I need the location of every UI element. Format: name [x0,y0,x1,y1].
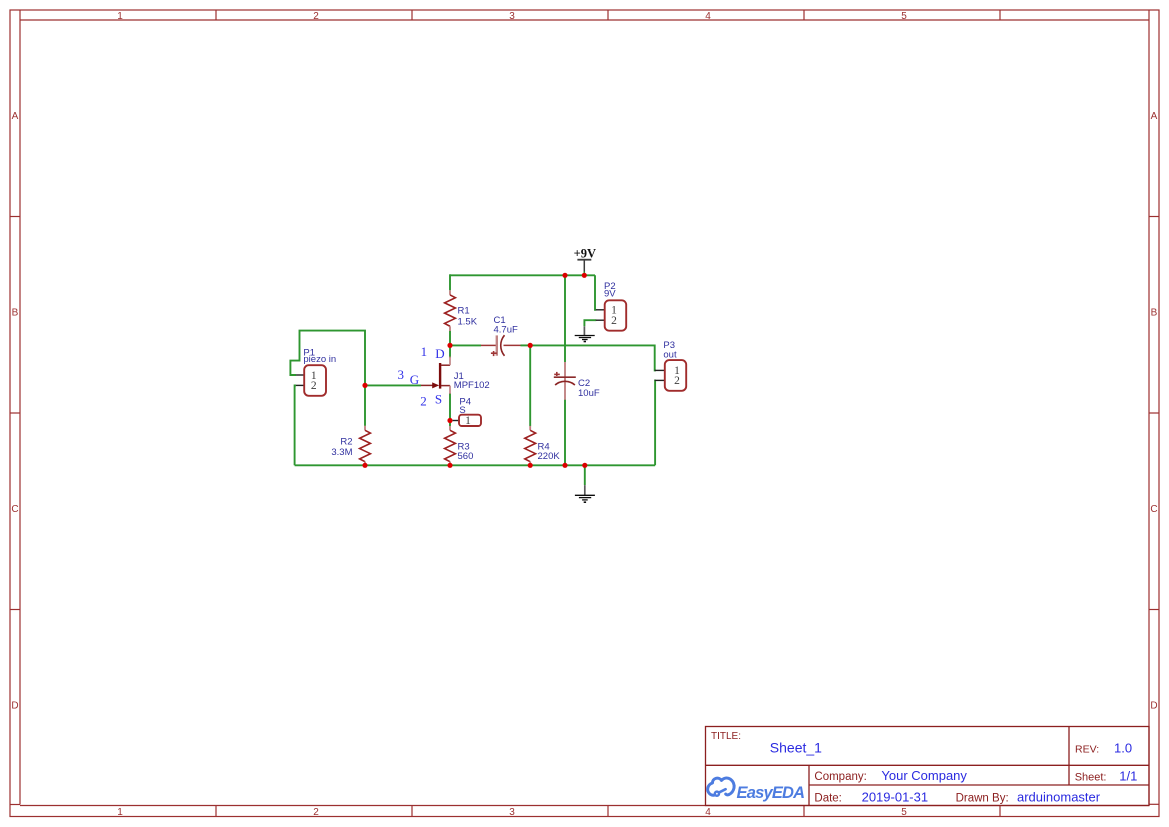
wire: P3 pin2 down to rail [654,380,657,465]
svg-text:2: 2 [611,315,617,327]
frame row letters right [1150,111,1157,712]
wire: source node to R3 [449,421,451,427]
svg-text:1.5K: 1.5K [458,317,478,328]
wire: gate node down to R2 [364,385,366,426]
resistor R3 [445,426,456,465]
svg-text:D: D [1150,701,1157,712]
svg-text:+9V: +9V [574,247,596,261]
junction node: +9V stem [582,273,587,278]
resistor R2 [360,426,371,466]
connector P2 box [605,300,627,330]
svg-text:3: 3 [509,11,515,22]
svg-text:A: A [12,111,19,122]
J1 source pin [449,386,451,394]
svg-text:S: S [459,405,465,416]
svg-text:R2: R2 [340,437,352,448]
wire: output node down to R4 [529,345,531,426]
+9V power flag [577,259,591,261]
connector P1 box [304,365,326,396]
junction node: R2 bottom [362,463,367,468]
wire: gate node to JFET gate [365,384,421,386]
wire: bottom ground rail [295,464,655,466]
wire: top rail down to P2 pin1 [595,275,596,310]
wire: drain node to C1 left [450,344,481,346]
svg-text:Your Company: Your Company [881,768,967,783]
EasyEDA logo cloud [708,778,735,796]
wire: R1 bottom to drain node [449,331,451,346]
svg-text:Sheet_1: Sheet_1 [770,739,822,755]
J1 gate lead [421,384,436,386]
JFET J1 channel bar [439,363,441,389]
connector P4 box [459,415,481,426]
svg-text:4: 4 [705,11,711,22]
svg-text:1/1: 1/1 [1119,769,1137,784]
wire: +9V rail down to C2 top [564,275,566,362]
junction node: C1 output [528,343,533,348]
svg-text:arduinomaster: arduinomaster [1017,789,1101,804]
svg-text:out: out [663,350,677,361]
svg-text:R1: R1 [458,306,470,317]
wire: P1 pin2 down to ground rail [295,385,296,465]
svg-text:2: 2 [674,375,680,387]
svg-text:1: 1 [117,807,123,818]
svg-text:MPF102: MPF102 [454,380,490,391]
wire: P1 pin1 route up and over to gate node [290,331,365,386]
svg-text:220K: 220K [538,451,561,462]
frame row letters left [11,111,18,712]
svg-text:1: 1 [117,11,123,22]
junction node: C2 bottom [562,463,567,468]
svg-text:TITLE:: TITLE: [711,731,741,742]
connector P3 pins [655,369,665,371]
junction node: R3 bottom [447,463,452,468]
svg-text:5: 5 [901,807,907,818]
junction node: drain [447,343,452,348]
svg-text:D: D [11,701,18,712]
junction node: R4 bottom [528,463,533,468]
frame column numbers bottom [117,807,907,818]
wire: +9V top rail [450,274,595,276]
J1 drain pin [449,357,451,366]
svg-text:1: 1 [421,344,428,359]
junction node: source / P4 [447,418,452,423]
svg-text:2: 2 [313,11,319,22]
svg-text:5: 5 [901,11,907,22]
svg-text:2019-01-31: 2019-01-31 [862,789,929,804]
svg-text:EasyEDA: EasyEDA [737,784,805,802]
junction node: gate [362,383,367,388]
wire: R1 top [449,274,451,290]
connector P4 pin [453,420,460,422]
svg-text:G: G [410,372,419,387]
svg-text:B: B [1151,308,1158,319]
svg-text:B: B [12,308,19,319]
svg-text:4.7uF: 4.7uF [494,325,518,336]
svg-text:C: C [1150,504,1157,515]
ground symbol at P2 [575,326,595,341]
title block lines [706,727,1150,806]
resistor R4 [525,426,536,465]
svg-text:3: 3 [509,807,515,818]
svg-text:Sheet:: Sheet: [1075,772,1107,784]
J1 drain lead [441,364,450,366]
junction node: C2 top rail [562,273,567,278]
svg-text:D: D [435,346,444,361]
svg-text:2: 2 [311,380,317,392]
svg-text:1: 1 [465,415,471,427]
svg-text:3.3M: 3.3M [331,447,352,458]
svg-text:3: 3 [398,367,405,382]
svg-text:10uF: 10uF [578,388,600,399]
svg-text:piezo in: piezo in [303,354,336,365]
wire: C1 right to output node [521,344,531,346]
wire: output node to P3 pin1 [530,345,656,370]
connector P2 pins [596,309,605,311]
wire: drain node to JFET drain [449,345,451,357]
ground symbol at bottom rail [575,485,595,502]
svg-text:A: A [1151,111,1158,122]
wire: P2 pin2 to ground stem [584,320,596,326]
svg-text:1.0: 1.0 [1114,740,1132,755]
connector P1 pins [296,374,304,376]
frame column numbers top [117,11,907,22]
capacitor C1 [481,335,521,356]
wire: C2 bottom to rail [564,400,566,466]
svg-text:2: 2 [420,393,427,408]
resistor R1 [445,290,456,331]
svg-text:Drawn By:: Drawn By: [956,792,1009,804]
J1 source lead [441,385,450,387]
svg-text:Date:: Date: [814,792,842,804]
svg-text:4: 4 [705,807,711,818]
svg-text:2: 2 [313,807,319,818]
capacitor C2 [554,362,576,400]
wire: rail to bottom ground [584,465,586,485]
wire: JFET source to source node [449,393,451,421]
connector P3 box [665,360,686,391]
svg-text:560: 560 [458,451,474,462]
junction node: ground stem [582,463,587,468]
svg-text:Company:: Company: [814,771,866,783]
svg-text:C: C [11,504,18,515]
svg-text:9V: 9V [604,289,616,300]
J1 gate arrow [432,382,439,388]
svg-text:S: S [435,392,442,407]
svg-text:REV:: REV: [1075,744,1099,756]
